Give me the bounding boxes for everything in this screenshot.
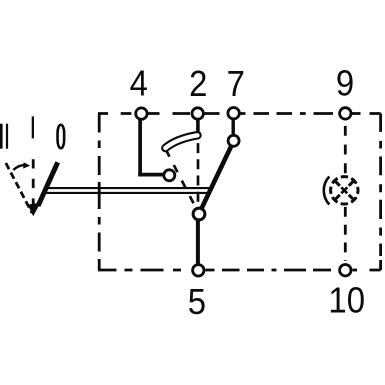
wire pivot to terminal5 xyxy=(196,218,200,265)
wire terminal7 down to contact xyxy=(231,119,234,136)
dashed link bridge to pivot (vertical) xyxy=(197,143,200,206)
switch arm (solid, position 0) xyxy=(202,146,232,209)
lamp reflector arc xyxy=(324,177,330,205)
lever (position 0, solid with arrowhead) xyxy=(28,162,58,216)
svg-text:5: 5 xyxy=(188,282,206,322)
terminal 9 xyxy=(340,108,351,119)
svg-text:2: 2 xyxy=(189,64,207,104)
wire terminal2 down to bridge xyxy=(196,119,200,133)
pivot circle xyxy=(193,208,205,220)
svg-text:7: 7 xyxy=(227,64,245,104)
svg-text:9: 9 xyxy=(336,64,354,104)
dashed lever position I (vertical) xyxy=(32,159,35,205)
terminal 10 xyxy=(340,265,351,276)
contact bridge (movable blade) xyxy=(165,135,197,148)
switch housing (dashed box) xyxy=(98,114,381,271)
contact circle (under terminal 4) xyxy=(164,170,175,181)
dashed alternate arm (to contact 4) xyxy=(166,150,199,215)
terminal 7 xyxy=(228,108,239,119)
rotation arrow xyxy=(13,162,30,170)
label 0 (position marker, condensed digit) xyxy=(58,125,65,149)
dashed lever position II (diagonal) xyxy=(6,163,32,213)
contact circle (under terminal 7) xyxy=(228,135,239,146)
svg-text:4: 4 xyxy=(130,64,148,104)
indicator lamp L1 (dashed circle with X) xyxy=(331,177,358,204)
label I (position marker) xyxy=(32,116,34,138)
wire terminal9 to lamp (dashed) xyxy=(344,126,347,173)
wire lamp to terminal10 (dashed) xyxy=(344,207,347,261)
terminal 4 xyxy=(136,108,147,119)
svg-text:10: 10 xyxy=(328,281,365,321)
actuator shaft (double line) xyxy=(43,188,212,193)
label II (position marker) xyxy=(0,124,8,149)
terminal 5 xyxy=(193,265,204,276)
wire terminal4 to contact xyxy=(138,120,163,177)
terminal 2 xyxy=(192,108,203,119)
